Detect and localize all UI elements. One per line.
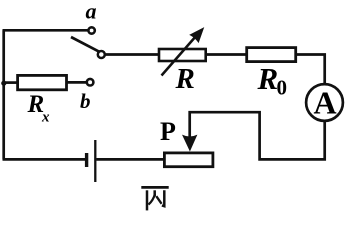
ammeter A (306, 84, 343, 121)
svg-text:P: P (160, 117, 176, 146)
battery long plate (94, 140, 96, 182)
wire Rx to terminal b (67, 81, 86, 84)
wire junction to Rx (3, 81, 17, 84)
wire ammeter down, left, up, to potentiometer arrow (190, 112, 325, 159)
svg-text:R: R (257, 61, 279, 96)
wire R0 to ammeter (295, 55, 325, 85)
svg-text:A: A (313, 85, 336, 121)
battery short plate (85, 153, 88, 167)
rheostat arrow through R (162, 28, 204, 75)
switch blade (71, 37, 99, 52)
wire R to R0 (206, 53, 246, 56)
switch pivot (98, 51, 105, 58)
bottom wire from left bus to battery (3, 158, 86, 161)
wire left bus (top-left corner down to bottom-left corner) (2, 30, 5, 159)
switch terminal b (87, 79, 94, 86)
svg-text:R: R (175, 63, 195, 95)
junction node (1, 81, 6, 86)
resistor R (rheostat) (159, 49, 206, 61)
wire pivot to R (105, 53, 158, 56)
wire battery to potentiometer (96, 158, 163, 161)
svg-text:0: 0 (277, 76, 288, 100)
switch terminal a (88, 27, 94, 33)
resistor R0 (247, 48, 296, 62)
potentiometer box (164, 153, 213, 167)
svg-text:x: x (41, 110, 50, 126)
potentiometer slider arrowhead (182, 135, 197, 152)
resistor Rx (18, 75, 67, 89)
svg-text:b: b (80, 89, 91, 113)
wire top from left bus to switch terminal a (3, 29, 89, 32)
svg-text:a: a (86, 0, 97, 24)
caption 丙 (drawn strokes) (141, 187, 168, 210)
